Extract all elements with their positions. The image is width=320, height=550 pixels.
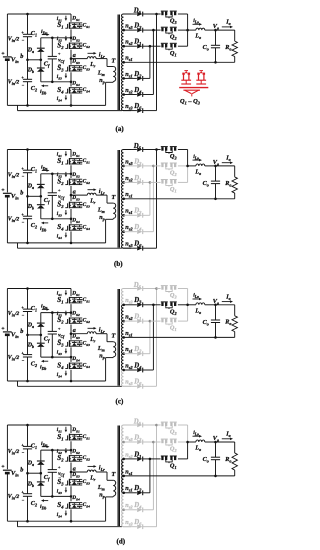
node: S3-S4 junction (c) bbox=[70, 356, 73, 359]
diode D2 rectifier (a) bbox=[137, 76, 142, 81]
wire: row3 winding to diode D1 (a) bbox=[123, 45, 136, 47]
resistor Ro load (b) bbox=[234, 166, 236, 177]
svg-text:Db: Db bbox=[27, 343, 34, 350]
node: winding tap row5 (b) bbox=[122, 214, 125, 217]
body diode DS4 (d) bbox=[73, 503, 75, 505]
node: winding tap row6 (d) bbox=[122, 509, 125, 512]
node: winding tap row2 (a) bbox=[122, 29, 125, 32]
wire: row3 winding to diode D1 (d) bbox=[123, 458, 136, 460]
wire: diode D3 to bus (a) bbox=[143, 29, 153, 31]
wire: switch Q2 to output bus (b) bbox=[178, 165, 188, 167]
svg-text:(d): (d) bbox=[117, 538, 126, 546]
transformer secondary winding ns taps (c) bbox=[121, 289, 123, 305]
wire: rectifier bus middle D3-D4 (a) bbox=[152, 30, 154, 94]
switch S3 mosfet (a) bbox=[70, 65, 83, 67]
wire: bottom rail (b) bbox=[7, 242, 105, 244]
wire: bus to switch Q3 (a) bbox=[157, 13, 161, 15]
wire: clamp node2 to switch stack (d) bbox=[41, 495, 71, 497]
body diode DS4 (b) bbox=[73, 225, 75, 227]
wire: row7 winding to diode D6 (b) bbox=[123, 247, 136, 249]
wire: switch Q2 to output bus (a) bbox=[178, 29, 188, 31]
switch S1 mosfet (d) bbox=[70, 433, 83, 435]
switch Q1 bidirectional pair (a) bbox=[161, 43, 168, 44]
wire: node a to resonant inductor (b) bbox=[71, 194, 87, 196]
wire: primary return stub (b) bbox=[17, 243, 19, 248]
diode Da clamp (a) bbox=[40, 38, 42, 48]
wire: row6 winding to diode D4 (a) bbox=[123, 94, 136, 96]
inductor Lo output filter (b) bbox=[196, 164, 205, 166]
wire: diode D3 to bus (b) bbox=[143, 165, 153, 167]
wire: diode D5 to bus (c) bbox=[143, 288, 157, 290]
capacitor C2 (a) bbox=[27, 60, 29, 80]
capacitor C1 (d) bbox=[27, 425, 29, 446]
node: bus inner row3 junction (b) bbox=[149, 181, 152, 184]
wire: node Vo to load (c) bbox=[216, 304, 235, 306]
capacitor C2 (b) bbox=[27, 196, 29, 216]
svg-text:+: + bbox=[58, 188, 61, 193]
wire: diode D5 to bus (b) bbox=[143, 149, 157, 151]
wire: bus to switch Q3 (c) bbox=[157, 288, 161, 290]
wire: diode D1 to bus (c) bbox=[143, 320, 150, 322]
body diode DS2 (a) bbox=[73, 43, 75, 45]
body diode DS1 (c) bbox=[73, 298, 75, 300]
wire: bus to switch Q1 (c) bbox=[150, 320, 161, 322]
wire: row2 winding to diode D3 (b) bbox=[123, 165, 136, 167]
svg-text:np: np bbox=[99, 493, 104, 500]
body diode DS3 (b) bbox=[73, 202, 75, 204]
diode D4 rectifier (b) bbox=[137, 229, 142, 234]
snubber capacitor CS1 (c) bbox=[79, 298, 81, 300]
wire: node b to clamp riser (c) bbox=[28, 334, 41, 336]
wire: top rail (a) bbox=[7, 13, 71, 15]
wire: center tap row4 output return rail (c) bbox=[123, 336, 234, 338]
node: winding tap row3 (d) bbox=[122, 458, 125, 461]
wire: secondary winding top end to row1 (a) bbox=[123, 13, 131, 15]
wire: output bus upper segment (c) bbox=[187, 289, 189, 305]
wire: bus to switch Q1 (b) bbox=[150, 181, 161, 183]
body diode DS4 (c) bbox=[73, 363, 75, 365]
node Vo output (b) bbox=[214, 165, 217, 168]
wire: diode D1 to bus (b) bbox=[143, 181, 150, 183]
svg-text:Db: Db bbox=[27, 204, 34, 211]
svg-text:b: b bbox=[20, 190, 23, 197]
body diode DS2 (c) bbox=[73, 318, 75, 320]
wire: row6 winding to diode D4 (b) bbox=[123, 231, 136, 233]
wire: left input rail vertical (b) bbox=[6, 150, 8, 193]
switch Q2 bidirectional pair (a) bbox=[161, 27, 168, 28]
wire: clamp node2 to switch stack (c) bbox=[41, 356, 71, 358]
svg-text:Lo: Lo bbox=[194, 34, 201, 41]
wire: node b to clamp riser (d) bbox=[28, 472, 41, 474]
svg-text:Da: Da bbox=[27, 460, 34, 467]
node a S2-S3 junction (b) bbox=[70, 194, 73, 197]
switch S2 mosfet (c) bbox=[70, 317, 83, 319]
node: winding tap row5 (a) bbox=[122, 77, 125, 80]
node: top rail / C1 junction (a) bbox=[26, 13, 29, 16]
diode D3 rectifier (c) bbox=[137, 303, 142, 308]
node: winding tap row5 (c) bbox=[122, 352, 125, 355]
wire: top rail (c) bbox=[7, 288, 71, 290]
snubber capacitor CS1 (d) bbox=[79, 434, 81, 436]
diode D3 rectifier (d) bbox=[137, 440, 142, 445]
switch Q3 bidirectional pair (d) bbox=[161, 422, 168, 423]
switch S1 mosfet (a) bbox=[70, 22, 83, 24]
wire: diode D6 to bus (a) bbox=[143, 110, 157, 112]
current label iLr with arrow (b) bbox=[88, 189, 94, 191]
switch Q2 bidirectional pair (b) bbox=[161, 163, 168, 164]
switch Q1 bidirectional pair (b) bbox=[161, 179, 168, 180]
wire: switch Q3 to output bus (c) bbox=[178, 288, 188, 290]
wire: inset common source bar (red) bbox=[179, 87, 208, 89]
wire: node Vo to load (b) bbox=[216, 165, 235, 167]
svg-text:Q1 – Q3: Q1 – Q3 bbox=[180, 98, 200, 106]
switch S4 mosfet (a) bbox=[70, 87, 83, 89]
wire: node a to resonant inductor (a) bbox=[71, 58, 87, 60]
wire: row6 winding to diode D4 (c) bbox=[123, 369, 136, 371]
wire: inductor Lo to node Vo (b) bbox=[205, 165, 216, 167]
wire: rectifier bus outer D5-D6 (a) bbox=[156, 14, 158, 111]
capacitor Cf flying (b) bbox=[51, 174, 53, 193]
inductor Lm transformer primary winding np (b) bbox=[113, 203, 116, 218]
wire: node Vo to load (d) bbox=[216, 441, 235, 443]
wire: rectifier bus inner D1-D2 (c) bbox=[149, 321, 151, 354]
body diode DS3 (d) bbox=[73, 479, 75, 481]
node: bottom rail / C2 junction (a) bbox=[26, 104, 29, 107]
wire: diode D3 to bus (c) bbox=[143, 304, 153, 306]
transformer secondary winding ns taps (a) bbox=[122, 14, 124, 30]
wire: switch stack vertical (d) bbox=[70, 425, 72, 433]
wire: row3 winding to diode D1 (c) bbox=[123, 320, 136, 322]
switch Q1 bidirectional pair (d) bbox=[161, 456, 168, 457]
capacitor Cf flying (a) bbox=[51, 38, 53, 57]
wire: switch Q1 to output bus (c) bbox=[178, 320, 188, 322]
wire: switch Q3 to output bus (d) bbox=[178, 424, 188, 426]
switch S4 mosfet (d) bbox=[70, 502, 83, 504]
wire: output bus lower segment (a) bbox=[187, 30, 189, 46]
wire: bottom rail (a) bbox=[7, 104, 105, 106]
diode D2 rectifier (d) bbox=[137, 491, 142, 496]
node b (c) bbox=[26, 334, 29, 337]
wire: Lr to transformer primary (a) bbox=[106, 59, 108, 67]
node: bus inner row3 junction (d) bbox=[149, 458, 152, 461]
node: winding tap row4 (a) bbox=[122, 61, 125, 64]
wire: transformer bottom return rail (a) bbox=[18, 110, 122, 112]
wire: secondary winding bottom end to row7 (b) bbox=[123, 247, 131, 249]
wire: diode D5 to bus (d) bbox=[143, 424, 157, 426]
switch Q1 bidirectional pair (c) bbox=[161, 318, 168, 319]
body diode DS1 (a) bbox=[73, 23, 75, 25]
capacitor C2 (c) bbox=[27, 335, 29, 355]
capacitor Cf flying (c) bbox=[51, 313, 53, 332]
wire: Lr to transformer primary (d) bbox=[106, 472, 108, 480]
node: bus inner row3 junction (a) bbox=[149, 45, 152, 48]
wire: bottom rail (c) bbox=[7, 380, 105, 382]
wire: diode D1 to bus (a) bbox=[143, 45, 150, 47]
node: S3-S4 junction (d) bbox=[70, 495, 73, 498]
svg-text:Da: Da bbox=[27, 322, 34, 329]
wire: switch Q3 to output bus (a) bbox=[178, 13, 188, 15]
wire: rectifier bus middle D3-D4 (d) bbox=[152, 442, 154, 510]
wire: diode D4 to bus (c) bbox=[143, 369, 153, 371]
wire: diode D4 to bus (a) bbox=[143, 94, 153, 96]
node Vo output (a) bbox=[214, 29, 217, 32]
wire: output bus to inductor Lo (b) bbox=[188, 165, 196, 167]
svg-text:Lm: Lm bbox=[97, 346, 105, 353]
wire: switch stack vertical (c) bbox=[70, 289, 72, 297]
wire: output bus lower segment (b) bbox=[187, 166, 189, 183]
svg-text:Lo: Lo bbox=[194, 308, 201, 315]
wire: output bus upper segment (d) bbox=[187, 425, 189, 442]
node: bottom rail / C2 junction (c) bbox=[26, 380, 29, 383]
wire: output bus upper segment (a) bbox=[187, 14, 189, 30]
node b (a) bbox=[26, 59, 29, 62]
node: Co bottom junction (d) bbox=[214, 475, 217, 478]
node: bus middle row2 junction (c) bbox=[152, 304, 155, 307]
inductor Lr resonant (d) bbox=[87, 470, 96, 472]
diode D6 rectifier (a) bbox=[137, 108, 142, 113]
node a S2-S3 junction (a) bbox=[70, 57, 73, 60]
wire: center tap row4 output return rail (b) bbox=[123, 198, 234, 200]
svg-text:+: + bbox=[58, 326, 61, 331]
body diode DS1 (d) bbox=[73, 434, 75, 436]
capacitor C1 (c) bbox=[27, 289, 29, 310]
wire: transformer bottom return rail (d) bbox=[18, 526, 122, 528]
node: bus outer row1 junction (c) bbox=[155, 287, 158, 290]
diode D1 rectifier (d) bbox=[137, 457, 142, 462]
body diode DS2 (d) bbox=[73, 456, 75, 458]
node: winding tap row6 (c) bbox=[122, 369, 125, 372]
wire: Lr to transformer primary (b) bbox=[106, 195, 108, 203]
svg-text:+: + bbox=[1, 464, 4, 470]
diode D2 rectifier (b) bbox=[137, 213, 142, 218]
svg-text:+: + bbox=[1, 187, 4, 193]
node: S3-S4 junction (a) bbox=[70, 81, 73, 84]
switch S1 mosfet (b) bbox=[70, 158, 83, 160]
transformer secondary winding ns taps (d) bbox=[122, 425, 124, 442]
svg-text:b: b bbox=[20, 53, 23, 60]
wire: switch Q1 to output bus (b) bbox=[178, 181, 188, 183]
node: bus outer row1 junction (d) bbox=[155, 424, 158, 427]
wire: row7 winding to diode D6 (a) bbox=[123, 110, 136, 112]
snubber capacitor CS3 (a) bbox=[79, 66, 81, 68]
wire: transformer bottom return rail (c) bbox=[18, 385, 122, 387]
body diode DS1 (b) bbox=[73, 159, 75, 161]
wire: primary return stub (d) bbox=[17, 521, 19, 527]
wire: rectifier bus outer D5-D6 (b) bbox=[156, 150, 158, 249]
wire: node Vo to load (a) bbox=[216, 29, 235, 31]
wire: secondary winding top end to row1 (b) bbox=[123, 149, 131, 151]
wire: inductor Lo to node Vo (a) bbox=[205, 29, 216, 31]
wire: row6 winding to diode D4 (d) bbox=[123, 509, 136, 511]
svg-text:Da: Da bbox=[27, 47, 34, 54]
snubber capacitor CS4 (d) bbox=[79, 503, 81, 505]
wire: output bus to inductor Lo (d) bbox=[188, 441, 196, 443]
node: Co bottom junction (a) bbox=[214, 61, 217, 64]
node: S3-S4 junction (b) bbox=[70, 218, 73, 221]
node: winding tap row6 (a) bbox=[122, 93, 125, 96]
inset: bidirectional switch detail Q1-Q3 (red) bbox=[183, 74, 185, 80]
body diode DS2 (b) bbox=[73, 179, 75, 181]
switch S4 mosfet (c) bbox=[70, 362, 83, 364]
diode Db clamp (b) bbox=[40, 196, 42, 204]
snubber capacitor CS4 (c) bbox=[79, 363, 81, 365]
transformer core (c) bbox=[117, 289, 119, 386]
wire: primary return stub (c) bbox=[17, 381, 19, 386]
wire: rectifier bus middle D3-D4 (c) bbox=[152, 305, 154, 370]
node: output bus Lo junction (b) bbox=[186, 165, 189, 168]
capacitor Co output filter (d) bbox=[215, 442, 217, 457]
node: S1-S2 junction (a) bbox=[70, 37, 73, 40]
wire: output bus to inductor Lo (a) bbox=[188, 29, 196, 31]
wire: rectifier bus outer D5-D6 (c) bbox=[156, 289, 158, 387]
node: top rail / C1 junction (d) bbox=[26, 424, 29, 427]
wire: bus to switch Q3 (b) bbox=[157, 149, 161, 151]
svg-text:(b): (b) bbox=[114, 260, 123, 268]
snubber capacitor CS3 (d) bbox=[79, 479, 81, 481]
node: output bus Lo junction (d) bbox=[186, 441, 189, 444]
resistor Ro load (a) bbox=[234, 30, 236, 41]
transformer core (d) bbox=[117, 426, 119, 527]
switch S2 mosfet (d) bbox=[70, 455, 83, 457]
wire: inductor Lo to node Vo (d) bbox=[205, 441, 216, 443]
inductor Lo output filter (a) bbox=[196, 28, 205, 30]
wire: diode D3 to bus (d) bbox=[143, 441, 153, 443]
node: bus outer row1 junction (b) bbox=[155, 148, 158, 151]
node: top rail / C1 junction (c) bbox=[26, 287, 29, 290]
diode D2 rectifier (c) bbox=[137, 351, 142, 356]
node: bus middle row2 junction (b) bbox=[152, 165, 155, 168]
node: winding tap row3 (a) bbox=[122, 45, 125, 48]
snubber capacitor CS4 (b) bbox=[79, 225, 81, 227]
wire: row2 winding to diode D3 (d) bbox=[123, 441, 136, 443]
wire: switch stack vertical (a) bbox=[70, 14, 72, 22]
node: winding tap row2 (b) bbox=[122, 165, 125, 168]
diode D5 rectifier (c) bbox=[137, 286, 142, 291]
node: S1-S2 junction (b) bbox=[70, 173, 73, 176]
svg-text:Da: Da bbox=[27, 184, 34, 191]
node b (d) bbox=[26, 472, 29, 475]
wire: secondary winding bottom end to row7 (a) bbox=[123, 110, 131, 112]
wire: clamp node1 to switch stack (c) bbox=[41, 312, 71, 314]
wire: switch stack vertical (b) bbox=[70, 150, 72, 158]
source Vin battery (d) bbox=[3, 469, 12, 471]
wire: bus to switch Q2 (b) bbox=[153, 165, 160, 167]
node: Co bottom junction (b) bbox=[214, 198, 217, 201]
wire: diode D2 to bus (b) bbox=[143, 214, 150, 216]
wire: diode D4 to bus (b) bbox=[143, 231, 153, 233]
body diode DS3 (a) bbox=[73, 66, 75, 68]
wire: row7 winding to diode D6 (d) bbox=[123, 526, 136, 528]
node Vo output (c) bbox=[214, 304, 217, 307]
wire: clamp node1 to switch stack (b) bbox=[41, 173, 71, 175]
node b (b) bbox=[26, 195, 29, 198]
transformer core (b) bbox=[117, 150, 119, 248]
wire: diode D5 to bus (a) bbox=[143, 13, 157, 15]
body diode DS3 (c) bbox=[73, 341, 75, 343]
node: top rail / C1 junction (b) bbox=[26, 148, 29, 151]
wire: switch Q2 to output bus (c) bbox=[178, 304, 188, 306]
wire: left input rail vertical (a) bbox=[6, 14, 8, 56]
wire: bus to switch Q3 (d) bbox=[157, 424, 161, 426]
current label iLr with arrow (a) bbox=[88, 52, 94, 54]
wire: switch Q3 to output bus (b) bbox=[178, 149, 188, 151]
wire: rectifier bus inner D1-D2 (a) bbox=[149, 46, 151, 78]
wire: rectifier bus middle D3-D4 (b) bbox=[152, 166, 154, 232]
wire: row1 winding to diode D5 (b) bbox=[123, 149, 136, 151]
wire: diode D6 to bus (b) bbox=[143, 247, 157, 249]
wire: node b to clamp riser (b) bbox=[28, 195, 41, 197]
wire: diode D2 to bus (d) bbox=[143, 492, 150, 494]
resistor Ro load (c) bbox=[234, 305, 236, 316]
node: winding tap row6 (b) bbox=[122, 230, 125, 233]
diode D3 rectifier (b) bbox=[137, 164, 142, 169]
wire: diode D6 to bus (d) bbox=[143, 526, 157, 528]
diode Db clamp (d) bbox=[40, 473, 42, 482]
diode Da clamp (b) bbox=[40, 174, 42, 185]
wire: row5 winding to diode D2 (b) bbox=[123, 214, 136, 216]
inductor Lm transformer primary winding np (c) bbox=[113, 342, 116, 357]
snubber capacitor CS2 (d) bbox=[79, 456, 81, 458]
inductor Lr resonant (c) bbox=[87, 332, 96, 334]
wire: output bus upper segment (b) bbox=[187, 150, 189, 166]
wire: bus to switch Q1 (d) bbox=[150, 458, 161, 460]
wire: bottom rail (d) bbox=[7, 520, 105, 522]
svg-text:+: + bbox=[58, 51, 61, 56]
wire: diode D4 to bus (d) bbox=[143, 509, 153, 511]
svg-text:b: b bbox=[20, 467, 23, 474]
current label iLr with arrow (c) bbox=[88, 327, 94, 329]
svg-text:(a): (a) bbox=[116, 125, 125, 133]
inductor Lm transformer primary winding np (d) bbox=[113, 480, 116, 496]
node: output bus Lo junction (a) bbox=[186, 29, 189, 32]
wire: diode D2 to bus (a) bbox=[143, 77, 150, 79]
diode Da clamp (d) bbox=[40, 450, 42, 461]
wire: node b to clamp riser (a) bbox=[28, 59, 41, 61]
switch Q3 bidirectional pair (b) bbox=[161, 146, 168, 147]
switch S3 mosfet (c) bbox=[70, 340, 83, 342]
inductor Lm transformer primary winding np (a) bbox=[113, 67, 116, 82]
wire: secondary winding bottom end to row7 (d) bbox=[123, 526, 131, 528]
diode D5 rectifier (b) bbox=[137, 147, 142, 152]
node: winding tap row3 (c) bbox=[122, 320, 125, 323]
wire: bus to switch Q2 (c) bbox=[153, 304, 160, 306]
wire: node a to resonant inductor (d) bbox=[71, 471, 87, 473]
transformer secondary winding ns taps (b) bbox=[121, 150, 123, 166]
diode D1 rectifier (c) bbox=[137, 319, 142, 324]
switch S2 mosfet (b) bbox=[70, 178, 83, 180]
wire: center tap row4 output return rail (a) bbox=[123, 61, 234, 63]
wire: rectifier bus inner D1-D2 (d) bbox=[149, 459, 151, 493]
node: winding tap row4 (b) bbox=[122, 198, 125, 201]
node: bus inner row3 junction (c) bbox=[149, 320, 152, 323]
svg-text:(c): (c) bbox=[116, 398, 124, 406]
wire: diode D2 to bus (c) bbox=[143, 353, 150, 355]
node: Co bottom junction (c) bbox=[214, 336, 217, 339]
wire: node a to resonant inductor (c) bbox=[71, 333, 87, 335]
resistor Ro load (d) bbox=[234, 442, 236, 453]
wire: left input rail vertical (d) bbox=[6, 425, 8, 469]
node: bottom rail / C2 junction (b) bbox=[26, 242, 29, 245]
wire: clamp node2 to switch stack (b) bbox=[41, 218, 71, 220]
wire: output bus lower segment (c) bbox=[187, 305, 189, 321]
wire: inset gate triangle (red) bbox=[183, 89, 200, 91]
svg-text:+: + bbox=[58, 464, 61, 469]
wire: switch Q1 to output bus (a) bbox=[178, 45, 188, 47]
diode D1 rectifier (a) bbox=[137, 44, 142, 49]
node: bus middle row2 junction (d) bbox=[152, 441, 155, 444]
snubber capacitor CS2 (b) bbox=[79, 179, 81, 181]
wire: clamp node1 to switch stack (d) bbox=[41, 449, 71, 451]
